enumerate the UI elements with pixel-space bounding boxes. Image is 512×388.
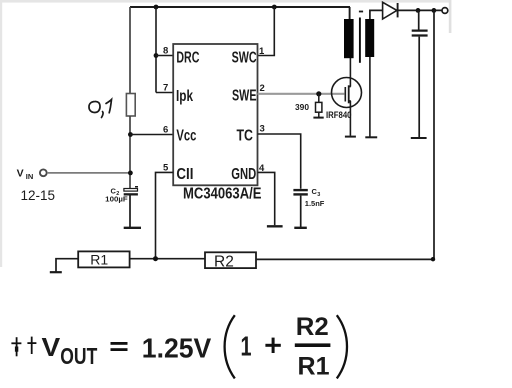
ground bar under secondary [365,136,377,138]
wire: secondary bottom to ground [369,57,371,137]
svg-text:R2: R2 [214,253,234,270]
svg-text:2: 2 [260,83,265,94]
node: junction at pin 8 [154,53,159,58]
node: corner junction [431,257,435,261]
wire: drain lead to transformer primary [349,58,351,87]
svg-text:6: 6 [163,125,168,136]
wire: pin 8 DRC stub [156,55,173,57]
formula daggers [11,337,36,357]
wire: R1 to R2 [130,258,205,260]
resistor R2 [205,252,256,268]
svg-text:R1: R1 [90,251,108,267]
op-amp U1 MC34063A/E box [173,44,257,185]
wire: source lead to ground [349,101,351,136]
MOSFET source tick [349,100,351,102]
wire: pin 2 SWE to MOSFET gate (grey) [258,93,345,95]
svg-text:3: 3 [260,124,265,135]
svg-text:12-15: 12-15 [21,188,56,203]
diode cathode bar [397,3,399,17]
svg-text:SWC: SWC [232,49,257,66]
wire: secondary top to diode [370,10,383,19]
wire: C3 lower lead [300,196,302,227]
node: junction at Vin wire / C2 [128,171,133,176]
resistor 390 [318,94,320,103]
value label 0,1 (handwritten) [89,100,112,118]
terminal output open circle [442,8,448,14]
svg-text:1: 1 [259,46,265,57]
plus tick of C2 [135,186,138,188]
svg-text:100µF: 100µF [105,195,128,204]
ground bar under output cap [411,137,427,139]
ground at R1 left [56,259,78,272]
node: junction at pin6/Vcc tap [128,132,133,137]
svg-text:V: V [42,332,61,362]
svg-text:IN: IN [26,172,34,181]
node: junction at gate resistor [316,91,321,96]
right parenthesis [337,315,347,378]
wire: from resistor 0,1 down to Vin node and C2 [129,116,131,189]
MOSFET drain tick [349,86,351,88]
svg-text:SWE: SWE [232,88,257,105]
wire: pin 6 Vcc stub [130,134,173,136]
svg-text:IRF840: IRF840 [326,110,352,121]
ground bar under C3 [294,227,307,229]
ground bar under C2 [124,227,141,229]
terminal Vin open circle [40,169,47,176]
wire: vertical to pins 8 and 7 [155,7,157,93]
wire: left vertical from top rail to resistor 0,1 [129,7,131,94]
svg-text:Vcc: Vcc [176,128,196,145]
node: junction divider tap [153,256,158,261]
resistor R1 [78,251,129,267]
grey artifact strip near output [449,0,452,33]
wire: Vin to left vertical [47,172,130,174]
wire: C2 lower lead [129,196,131,228]
node: junction dot top rail / pin 1 branch [272,5,277,10]
wire: pin 1 SWC riser [258,7,275,56]
wire: pin 4 GND drop [258,172,275,225]
left parenthesis [225,315,235,378]
transformer T1 primary winding [344,19,354,58]
MOSFET channel bar [348,85,350,103]
svg-text:8: 8 [163,46,168,57]
plus sign [265,344,280,347]
svg-text:CII: CII [176,166,193,183]
wire: pin 5 CII stub and drop to divider rail [156,172,174,259]
wire: R2 to feedback vertical [256,258,434,260]
ground bar under 390 [313,117,323,119]
wire: pin 7 Ipk stub [156,92,173,94]
svg-text:3: 3 [317,192,320,198]
transformer core line [359,18,361,63]
svg-text:R2: R2 [296,313,329,341]
polarity dash [359,11,363,13]
transistor Q1 IRF840 MOSFET circle [332,78,362,108]
ground bar under pin 4 [267,225,283,227]
svg-text:V: V [17,167,24,179]
wire: top supply rail [130,6,350,8]
wire: feedback right vertical [433,10,435,259]
svg-text:DRC: DRC [176,49,199,66]
svg-text:MC34063A/E: MC34063A/E [183,185,262,202]
node: junction dot top rail / pins 8-7 branch [154,5,159,10]
diode D1 [383,2,397,19]
capacitor C4 output [418,10,420,29]
svg-text:GND: GND [231,166,256,183]
wire: diode to output [398,9,442,11]
top grey border strip [0,0,451,3]
equals sign [111,342,128,345]
fraction bar [295,343,331,347]
svg-text:R1: R1 [298,352,330,380]
node: junction at output cap [416,8,421,13]
capacitor C2 (polarized) plates [124,189,138,192]
svg-text:1: 1 [241,330,252,361]
svg-text:390: 390 [295,103,310,112]
svg-text:OUT: OUT [60,343,97,369]
svg-text:7: 7 [163,83,168,94]
wire: top rail down into primary [349,7,351,19]
svg-text:TC: TC [237,128,254,145]
MOSFET gate plate [344,87,346,102]
ground bar under MOSFET source [345,136,356,138]
resistor 0,1 [126,94,135,117]
svg-text:1.5nF: 1.5nF [305,199,325,208]
svg-text:1.25V: 1.25V [142,332,212,363]
left grey border strip [0,0,2,267]
svg-text:Ipk: Ipk [176,88,193,105]
capacitor C3 plates [293,189,307,191]
wire: pin 3 TC to C3 [258,134,301,189]
transformer T1 secondary winding [365,19,374,57]
node: junction at feedback drop [432,8,437,13]
